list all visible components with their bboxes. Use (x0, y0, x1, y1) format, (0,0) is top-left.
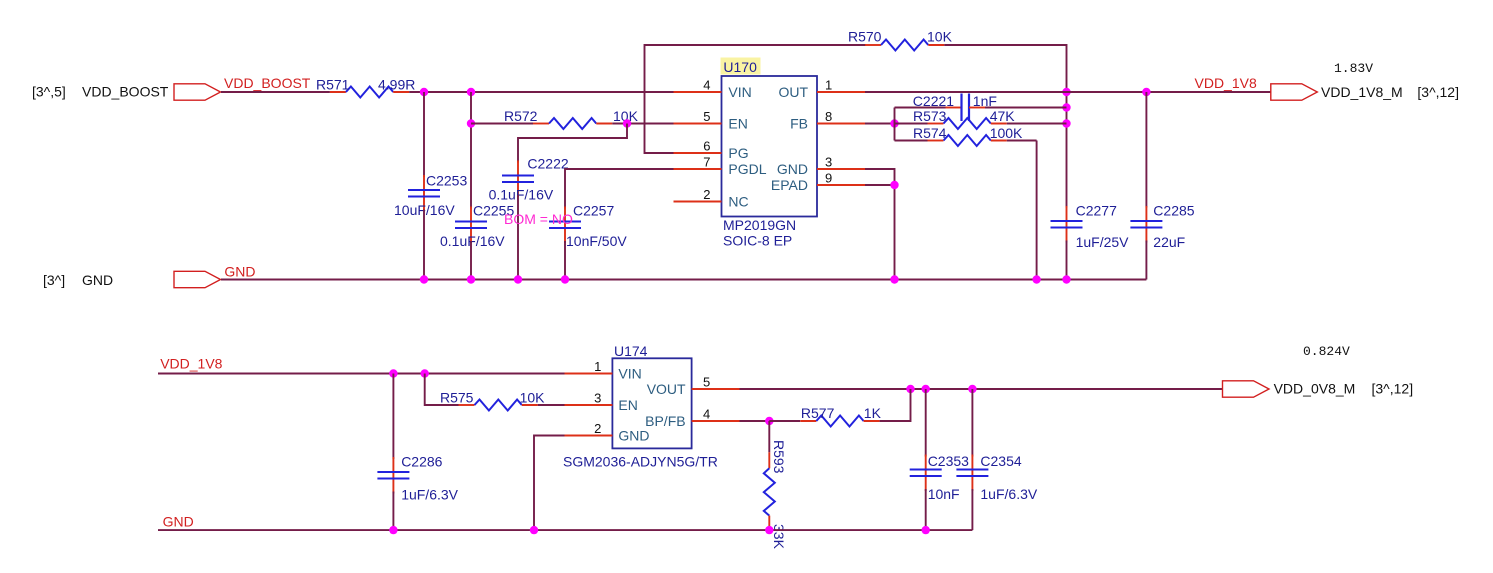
junction (1062, 103, 1070, 111)
junction (922, 526, 930, 534)
wire R571 to VIN rail (409, 91, 673, 93)
junction (389, 526, 397, 534)
wire R575 to EN pin (538, 404, 565, 406)
svg-text:VDD_BOOST: VDD_BOOST (82, 84, 169, 100)
svg-text:R574: R574 (913, 125, 947, 141)
junction (1142, 88, 1150, 96)
pin 1 VIN (565, 359, 642, 382)
wire C2255 to GND rail (470, 241, 472, 280)
svg-text:C2221: C2221 (913, 93, 954, 109)
svg-text:1uF/6.3V: 1uF/6.3V (980, 486, 1037, 502)
junction (530, 526, 538, 534)
svg-text:5: 5 (703, 109, 710, 124)
svg-text:VDD_1V8: VDD_1V8 (1195, 75, 1257, 91)
pin 3 GND (777, 155, 865, 178)
svg-text:NC: NC (728, 194, 748, 210)
wire divider bracket (894, 108, 896, 141)
svg-text:R593: R593 (771, 440, 787, 474)
net label GND (224, 264, 255, 280)
net label VDD_1V8 (1195, 75, 1257, 91)
svg-text:EN: EN (618, 397, 637, 413)
junction (765, 526, 773, 534)
wire GND pin to GND rail (534, 436, 565, 531)
wire C2257 to GND rail (564, 241, 566, 280)
svg-text:U170: U170 (723, 59, 757, 75)
svg-text:[3^,12]: [3^,12] (1372, 381, 1414, 397)
wire C2222 to GND rail (517, 195, 519, 280)
port VDD_1V8_M output (1271, 84, 1318, 100)
IC U170 MP2019GN (721, 58, 818, 249)
svg-text:R573: R573 (913, 108, 947, 124)
svg-text:BOM = NO: BOM = NO (504, 211, 573, 227)
svg-text:8: 8 (825, 109, 832, 124)
wire R574 to GND rail (1036, 141, 1038, 280)
junction (467, 88, 475, 96)
text VDD_1V8_M [3^,12] (1321, 84, 1459, 100)
svg-text:PG: PG (728, 145, 748, 161)
wire node to C2286 (392, 374, 394, 460)
IC U174 SGM2036 (563, 343, 718, 470)
svg-text:5: 5 (703, 375, 710, 390)
svg-text:10nF/50V: 10nF/50V (566, 233, 627, 249)
wire EN node to C2222 (518, 124, 627, 163)
port VDD_0V8_M output (1223, 381, 1270, 397)
capacitor C2257 (549, 203, 627, 250)
svg-text:9: 9 (825, 171, 832, 186)
wire node down to C2253 (423, 92, 425, 177)
svg-text:PGDL: PGDL (728, 161, 766, 177)
wire EPAD to GND wire (865, 184, 895, 186)
svg-text:GND: GND (82, 272, 113, 288)
wire C2253 to GND rail (423, 210, 425, 280)
voltage 1.83V (1334, 61, 1373, 76)
svg-text:BP/FB: BP/FB (645, 413, 685, 429)
svg-text:1.83V: 1.83V (1334, 61, 1373, 76)
svg-text:C2353: C2353 (928, 453, 969, 469)
svg-text:C2286: C2286 (401, 454, 442, 470)
net label GND bottom (163, 514, 194, 530)
svg-text:R577: R577 (801, 405, 835, 421)
svg-text:C2277: C2277 (1076, 203, 1117, 219)
svg-text:0.1uF/16V: 0.1uF/16V (440, 233, 505, 249)
junction (890, 275, 898, 283)
wire node to C2354 (971, 389, 973, 457)
junction (514, 275, 522, 283)
junction (420, 275, 428, 283)
junction (906, 385, 914, 393)
svg-text:VIN: VIN (618, 366, 641, 382)
resistor R571 (316, 77, 415, 98)
port GND input (174, 271, 221, 287)
junction (765, 417, 773, 425)
pin 8 FB (790, 109, 865, 132)
svg-text:1: 1 (825, 78, 832, 93)
pin 2 NC (674, 187, 749, 210)
wire VDD_BOOST to R571 (221, 91, 330, 93)
port VDD_BOOST input (174, 84, 221, 100)
svg-text:VDD_BOOST: VDD_BOOST (224, 75, 311, 91)
wire FB to divider node (865, 123, 895, 125)
svg-text:4: 4 (703, 407, 710, 422)
junction (420, 88, 428, 96)
pin 1 OUT (778, 78, 865, 101)
resistor R573 (895, 108, 1067, 129)
svg-text:0.1uF/16V: 0.1uF/16V (489, 187, 554, 203)
sheet reference [3^,5] VDD_BOOST (32, 84, 169, 100)
voltage 0.824V (1303, 344, 1350, 359)
svg-text:47K: 47K (990, 108, 1016, 124)
capacitor C2222 (489, 156, 569, 203)
svg-text:3: 3 (825, 155, 832, 170)
text VDD_0V8_M [3^,12] (1274, 381, 1414, 397)
svg-text:2: 2 (703, 187, 710, 202)
svg-text:[3^,12]: [3^,12] (1417, 84, 1459, 100)
svg-text:6: 6 (703, 139, 710, 154)
wire R577 up to VOUT rail (880, 389, 911, 421)
pin 7 PGDL (674, 155, 767, 178)
wire R572 to EN node (612, 123, 673, 125)
svg-text:OUT: OUT (778, 84, 808, 100)
pin 6 PG (674, 139, 749, 162)
svg-text:R571: R571 (316, 77, 350, 93)
junction (467, 275, 475, 283)
wire node to C2353 (925, 389, 927, 457)
svg-text:EN: EN (728, 116, 747, 132)
net label VDD_1V8 bottom (160, 356, 222, 372)
svg-text:VIN: VIN (728, 84, 751, 100)
wire GND rail bottom (158, 529, 972, 531)
svg-text:GND: GND (777, 161, 808, 177)
wire PGDL to C2257 (565, 169, 674, 209)
wire PG up and across to R570 (645, 45, 867, 153)
wire output node to C2285 (1145, 92, 1147, 208)
svg-text:C2222: C2222 (527, 156, 568, 172)
pin 2 GND (565, 421, 650, 444)
junction (623, 119, 631, 127)
junction (1062, 275, 1070, 283)
capacitor C2255 (440, 203, 514, 250)
resistor R574 (895, 125, 1037, 146)
svg-text:R572: R572 (504, 108, 538, 124)
svg-text:GND: GND (618, 428, 649, 444)
resistor R577 (800, 405, 881, 427)
capacitor C2285 (1130, 203, 1194, 251)
svg-text:4: 4 (703, 78, 710, 93)
capacitor C2253 (394, 173, 467, 219)
svg-text:10K: 10K (927, 29, 953, 45)
junction (1062, 119, 1070, 127)
resistor R572 (504, 108, 639, 129)
wire to R572 (471, 123, 533, 125)
svg-text:22uF: 22uF (1153, 234, 1185, 250)
svg-text:10K: 10K (520, 390, 546, 406)
capacitor C2353 (910, 453, 969, 502)
svg-text:GND: GND (163, 514, 194, 530)
wire C2285 to GND rail (1145, 241, 1147, 280)
svg-text:R575: R575 (440, 390, 474, 406)
svg-text:C2354: C2354 (980, 453, 1021, 469)
junction (1062, 88, 1070, 96)
resistor R593 (764, 421, 787, 550)
pin 5 EN (674, 109, 748, 132)
svg-text:U174: U174 (614, 343, 648, 359)
junction (467, 119, 475, 127)
capacitor C2286 (377, 454, 458, 503)
svg-text:7: 7 (703, 155, 710, 170)
svg-text:FB: FB (790, 116, 808, 132)
junction (922, 385, 930, 393)
wire node to R577 (769, 420, 800, 422)
svg-text:1nF: 1nF (973, 93, 997, 109)
net label VDD_BOOST (224, 75, 311, 91)
svg-text:C2285: C2285 (1153, 203, 1194, 219)
svg-text:EPAD: EPAD (771, 177, 808, 193)
wire C2354 to GND rail (971, 489, 973, 530)
wire GND pin to GND rail (865, 169, 895, 280)
svg-text:0.824V: 0.824V (1303, 344, 1350, 359)
svg-text:3: 3 (594, 391, 601, 406)
wire R570 to output node (944, 45, 1066, 208)
svg-text:VDD_1V8: VDD_1V8 (160, 356, 222, 372)
svg-text:C2253: C2253 (426, 173, 467, 189)
capacitor C2277 (1051, 203, 1130, 251)
svg-text:C2257: C2257 (573, 203, 614, 219)
wire BP/FB to node (740, 420, 770, 422)
svg-text:4.99R: 4.99R (378, 77, 415, 93)
junction (561, 275, 569, 283)
svg-text:1uF/6.3V: 1uF/6.3V (401, 487, 458, 503)
wire VDD_1V8 rail (158, 373, 565, 375)
svg-text:[3^,5]: [3^,5] (32, 84, 66, 100)
pin 5 VOUT (647, 375, 740, 398)
wire VOUT rail to port (740, 388, 1223, 390)
svg-text:VOUT: VOUT (647, 381, 686, 397)
junction (1032, 275, 1040, 283)
wire OUT rail to port (865, 91, 1271, 93)
wire C2286 to GND rail (392, 492, 394, 531)
wire C2277 to GND rail (1066, 241, 1068, 280)
wire node down to R575 (425, 374, 459, 406)
svg-text:VDD_1V8_M: VDD_1V8_M (1321, 84, 1403, 100)
pin 4 BP/FB (645, 407, 739, 430)
junction (890, 181, 898, 189)
resistor R570 (848, 29, 953, 51)
svg-text:SOIC-8 EP: SOIC-8 EP (723, 233, 792, 249)
text BOM = NO (504, 211, 573, 227)
pin 9 EPAD (771, 171, 865, 194)
junction (890, 119, 898, 127)
capacitor C2221 (895, 93, 1067, 121)
pin 3 EN (565, 391, 638, 414)
junction (389, 369, 397, 377)
resistor R575 (440, 390, 545, 411)
svg-text:1uF/25V: 1uF/25V (1076, 234, 1130, 250)
svg-text:GND: GND (224, 264, 255, 280)
wire node down to C2255 (470, 92, 472, 209)
svg-text:[3^]: [3^] (43, 272, 65, 288)
capacitor C2354 (956, 453, 1037, 502)
svg-text:10nF: 10nF (928, 486, 960, 502)
svg-text:2: 2 (594, 421, 601, 436)
svg-text:MP2019GN: MP2019GN (723, 217, 796, 233)
svg-text:100K: 100K (990, 125, 1023, 141)
wire C2353 to GND rail (925, 489, 927, 530)
sheet reference [3^] GND (43, 272, 113, 288)
svg-text:1: 1 (594, 359, 601, 374)
junction (421, 369, 429, 377)
svg-text:33K: 33K (771, 524, 787, 550)
svg-text:VDD_0V8_M: VDD_0V8_M (1274, 381, 1356, 397)
svg-text:R570: R570 (848, 29, 882, 45)
svg-text:1K: 1K (864, 405, 882, 421)
svg-text:SGM2036-ADJYN5G/TR: SGM2036-ADJYN5G/TR (563, 454, 718, 470)
wire GND rail (221, 279, 1146, 281)
junction (968, 385, 976, 393)
pin 4 VIN (674, 78, 752, 101)
